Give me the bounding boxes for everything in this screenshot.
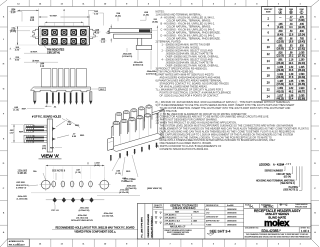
- svg-text:(36.20): (36.20): [298, 70, 306, 72]
- svg-text:(29.40): (29.40): [277, 70, 285, 72]
- svg-text:42.0: 42.0: [289, 84, 294, 86]
- svg-text:1998/09/08: 1998/09/08: [227, 217, 236, 219]
- svg-text:Ⓐ: Ⓐ: [279, 9, 283, 14]
- svg-text:APPROVED BY: APPROVED BY: [206, 219, 220, 222]
- svg-text:A - 4238# - * * *: A - 4238# - * * *: [273, 162, 291, 166]
- svg-text:INCORPORATED AND SHOULD NOT BE: INCORPORATED AND SHOULD NOT BE USED WITH…: [245, 236, 311, 239]
- svg-text:(4.20±0.10): (4.20±0.10): [79, 210, 90, 212]
- svg-text:1.65: 1.65: [106, 33, 110, 35]
- svg-text:(SEE NOTE 2): (SEE NOTE 2): [283, 190, 298, 192]
- left/right zone letter strips: [0, 26, 8, 28]
- svg-text:CKT. #1: CKT. #1: [51, 210, 59, 212]
- svg-text:3.18±.08: 3.18±.08: [18, 173, 27, 175]
- short dim line top-left: [18, 9, 39, 11]
- svg-text:(0.38±0.13): (0.38±0.13): [133, 64, 144, 66]
- view A terminal tips through board: [52, 128, 55, 141]
- svg-text:(4.55): (4.55): [10, 31, 16, 33]
- svg-text:J: J: [3, 39, 4, 41]
- scale/metric/projection row: [258, 204, 260, 209]
- rotated legend strips: [144, 204, 146, 240]
- svg-text:# OF P.C. BOARD HOLES: # OF P.C. BOARD HOLES: [32, 116, 62, 119]
- side view solder pins: [46, 92, 48, 101]
- svg-text:VIEW ’A’: VIEW ’A’: [41, 154, 59, 159]
- svg-text:1 OF 4: 1 OF 4: [301, 229, 309, 233]
- svg-text:CIRCUIT #1: CIRCUIT #1: [47, 51, 61, 54]
- view A left dim arrow: [13, 125, 15, 143]
- svg-text:(SEE VIEW ’A’): (SEE VIEW ’A’): [147, 187, 162, 190]
- side view base bar: [31, 87, 91, 92]
- svg-text:(27.81): (27.81): [298, 56, 306, 58]
- svg-text:molex: molex: [264, 217, 290, 228]
- svg-text:(21.00): (21.00): [277, 56, 285, 58]
- svg-text:1.12: 1.12: [40, 66, 45, 68]
- svg-text:ANGULAR ± 3°: ANGULAR ± 3°: [170, 225, 186, 228]
- svg-text:RECOMMENDED HOLE LAYOUT FOR .0: RECOMMENDED HOLE LAYOUT FOR .093/2.36 MA…: [55, 227, 134, 230]
- svg-text:(52.96): (52.96): [298, 98, 306, 100]
- corner diagonal top-right: [311, 0, 319, 7]
- svg-text:4.20: 4.20: [95, 33, 100, 35]
- svg-text:OF .020/0.51 ALLOWS FOR 4 POIN: OF .020/0.51 ALLOWS FOR 4 POINTS OF CONT…: [160, 94, 220, 97]
- pcb layout left mounting hole: [41, 180, 50, 189]
- svg-text:▽: ▽: [160, 212, 162, 215]
- svg-text:Ⓒ: Ⓒ: [300, 9, 304, 14]
- svg-text:33.6: 33.6: [289, 70, 294, 72]
- svg-text:P.C. LINE TYPE INFO: P.C. LINE TYPE INFO: [141, 217, 143, 238]
- general tolerances table: [204, 204, 206, 240]
- svg-text:(48.77): (48.77): [298, 91, 306, 93]
- svg-text:REF.: REF.: [75, 125, 80, 127]
- svg-text:2.13: 2.13: [101, 42, 106, 44]
- view A terminal rows: [24, 125, 53, 133]
- front view right mounting ear: [90, 29, 96, 38]
- svg-text:(1.19): (1.19): [75, 172, 81, 174]
- side view left retention leg: [34, 92, 36, 101]
- svg-text:(0.73±0.25): (0.73±0.25): [126, 188, 137, 190]
- svg-text:(0.05): (0.05): [94, 165, 100, 167]
- svg-text:REF.: REF.: [132, 179, 137, 181]
- svg-text:SYMBOLS: SYMBOLS: [153, 207, 163, 209]
- isometric left flange: [108, 137, 114, 150]
- isometric body vertical edge lines: [120, 126, 122, 147]
- legend connector lines: [284, 166, 302, 190]
- small dim marker under first pin: [45, 105, 52, 107]
- svg-text:▽: ▽: [160, 222, 162, 225]
- svg-text:CHECKED BY: CHECKED BY: [206, 217, 219, 219]
- svg-text:GENERAL TOLERANCES: GENERAL TOLERANCES: [170, 204, 198, 207]
- svg-text:B REF.: B REF.: [31, 51, 38, 53]
- svg-text:(1.02±0.08): (1.02±0.08): [17, 199, 28, 201]
- svg-text:SDA-42385-*: SDA-42385-*: [261, 229, 281, 233]
- svg-text:.062 REF.: .062 REF.: [16, 182, 26, 184]
- top zone tick strip: [28, 0, 30, 7]
- svg-text:(1.18): (1.18): [13, 109, 19, 111]
- section view right vertical extension line: [156, 26, 158, 71]
- svg-text:REF.: REF.: [126, 171, 131, 173]
- section view terminal block (dark): [139, 29, 150, 32]
- svg-text:REF.: REF.: [19, 132, 24, 134]
- pcb layout horizontal dim line lower: [46, 199, 105, 201]
- section view lower bar: [114, 34, 152, 38]
- isometric view body: [111, 109, 164, 150]
- isometric pins: [119, 153, 120, 156]
- svg-text:2.13: 2.13: [11, 12, 16, 14]
- svg-text:TO AID IN PCB INSERTION. INSER: TO AID IN PCB INSERTION. INSERT THE 4OUT…: [160, 107, 291, 110]
- svg-text:(23.62): (23.62): [298, 49, 306, 51]
- leader: pin indicates circuit #1: [43, 44, 47, 49]
- svg-text:SEC: SEC: [100, 89, 105, 91]
- svg-text:(12.60): (12.60): [277, 41, 285, 43]
- title block outer: [137, 204, 311, 240]
- svg-text:(6.45): (6.45): [115, 15, 121, 17]
- svg-text:REL E-2003-0417: REL E-2003-0417: [9, 244, 26, 246]
- svg-text:DOCUMENT NO.: DOCUMENT NO.: [245, 228, 259, 230]
- svg-text:(16.80): (16.80): [277, 49, 285, 51]
- svg-text:(02-24): (02-24): [284, 177, 291, 179]
- svg-text:(8.40): (8.40): [277, 34, 283, 36]
- svg-text:NON-ACCUMULATIVE: NON-ACCUMULATIVE: [71, 219, 93, 222]
- svg-text:(1.10): (1.10): [115, 173, 121, 175]
- document number row: [244, 226, 311, 228]
- revision box bottom-left: [8, 239, 30, 247]
- svg-text:(11.05): (11.05): [298, 27, 305, 29]
- isometric sockets back row: [116, 112, 122, 127]
- center mark arrow above housing: [63, 9, 65, 11]
- svg-text:BusMM: BusMM: [227, 205, 234, 207]
- view A leader lines: [56, 121, 69, 138]
- svg-text:& VIEW ’A’: & VIEW ’A’: [16, 187, 27, 190]
- corner diagonal bottom-left: [0, 239, 8, 247]
- svg-text:DESIGN ETLE: DESIGN ETLE: [206, 205, 219, 207]
- svg-text:REF.: REF.: [80, 135, 85, 137]
- extension lines from pin columns: [44, 23, 46, 26]
- front view terminal pins 5x2 grid: [42, 29, 49, 36]
- svg-text:A.PANULLE.P.D-: A.PANULLE.P.D-: [9, 240, 24, 243]
- section view upper bar: [109, 28, 152, 32]
- pcb layout pin holes row 2 (diamonds): [53, 197, 57, 202]
- svg-text:DIMENSION STANDARD: DIMENSION STANDARD: [147, 213, 150, 237]
- svg-text:(15.24): (15.24): [298, 34, 306, 36]
- pcb layout right mounting hole: [100, 180, 109, 189]
- svg-text:(1.43): (1.43): [143, 14, 149, 16]
- svg-text:37.8: 37.8: [289, 77, 294, 79]
- svg-text:1998/09/08: 1998/09/08: [227, 209, 236, 211]
- svg-text:(37.80): (37.80): [277, 84, 285, 86]
- svg-text:25.2: 25.2: [289, 56, 294, 58]
- svg-text:(33.60): (33.60): [277, 77, 285, 79]
- iso flange leg pin: [110, 155, 111, 159]
- svg-text:PLATING: PLATING: [289, 186, 299, 189]
- front view centerline: [30, 36, 98, 38]
- svg-text:REF.: REF.: [22, 109, 27, 111]
- svg-text:1998/09/08: 1998/09/08: [227, 225, 236, 227]
- side view right dim box: [90, 88, 99, 90]
- signoff column: [243, 204, 245, 240]
- svg-text:⊕—◁: ⊕—◁: [280, 203, 288, 207]
- svg-text:SERIES NUMBER: SERIES NUMBER: [265, 171, 284, 173]
- svg-text:(±0.10) SQL: (±0.10) SQL: [102, 216, 114, 218]
- svg-text:MICRO-FIT SYMBOLS: MICRO-FIT SYMBOLS: [151, 216, 153, 238]
- circuit size dim table: [262, 7, 307, 101]
- svg-text:29.4: 29.4: [289, 63, 294, 65]
- svg-text:1998/09/08: 1998/09/08: [227, 213, 236, 215]
- front view housing outline: [39, 26, 90, 45]
- svg-text:(32.00): (32.00): [298, 63, 306, 65]
- svg-text:(4.20): (4.20): [277, 27, 283, 29]
- view A pcb bar: [47, 119, 52, 152]
- section view bottom tab: [136, 45, 152, 49]
- vertical dim housing height: [17, 26, 19, 45]
- dim line W REF above front view: [45, 21, 83, 23]
- section view left dim: [110, 25, 112, 29]
- svg-text:(4.32±.08): (4.32±.08): [119, 192, 129, 194]
- svg-text:▽: ▽: [160, 217, 162, 220]
- svg-text:(46.20): (46.20): [277, 98, 285, 100]
- svg-text:CIRCUIT SIZE: CIRCUIT SIZE: [276, 174, 291, 176]
- svg-text:46.2: 46.2: [289, 91, 294, 93]
- corner diagonal bottom-right: [311, 239, 319, 247]
- svg-text:1998/09/08: 1998/09/08: [227, 220, 236, 222]
- section view vertical stem: [138, 38, 142, 45]
- svg-text:SEE NOTE 6: SEE NOTE 6: [16, 185, 29, 187]
- svg-text:W REF.: W REF.: [50, 15, 58, 17]
- svg-text:(0.8): (0.8): [42, 148, 46, 150]
- svg-text:DIMENSIONS: DIMENSIONS: [172, 234, 185, 236]
- svg-text:50.4: 50.4: [289, 98, 294, 100]
- svg-text:(25.20): (25.20): [277, 63, 285, 65]
- svg-text:J: J: [315, 39, 316, 41]
- disclaimer row: [244, 232, 311, 234]
- svg-text:(SEE NOTE 1): (SEE NOTE 1): [280, 183, 295, 185]
- svg-text:2.24: 2.24: [30, 20, 35, 22]
- svg-text:PROJECTION: PROJECTION: [295, 206, 308, 208]
- corner diagonal top-left (cut corner): [0, 0, 7, 6]
- quality symbols column: [162, 204, 164, 240]
- front view left mounting ear: [33, 29, 39, 38]
- dim line above housing full width: [39, 16, 48, 18]
- svg-text:Ⓑ: Ⓑ: [289, 9, 293, 14]
- svg-text:DIA: DIA: [33, 170, 37, 173]
- svg-text:HOUSING AND TERMINAL MATERIAL: HOUSING AND TERMINAL MATERIAL: [256, 179, 296, 182]
- svg-text:(1.10): (1.10): [121, 181, 127, 183]
- svg-text:(6.86): (6.86): [299, 20, 305, 22]
- svg-text:(44.58): (44.58): [298, 84, 306, 86]
- isometric sockets front row: [113, 121, 119, 136]
- svg-text:(1.37±0.13): (1.37±0.13): [122, 56, 133, 58]
- svg-text:SIZE: SIZE: [266, 11, 271, 13]
- svg-text:H.KIM: H.KIM: [206, 225, 212, 227]
- svg-text:.04: .04: [54, 106, 57, 108]
- svg-text:21.0: 21.0: [289, 49, 294, 51]
- side view right retention leg: [90, 92, 92, 101]
- svg-text:VIEWED FROM COMPONENT SIDE △: VIEWED FROM COMPONENT SIDE △: [74, 231, 115, 234]
- pcb layout pin holes row 1 (ovals): [52, 181, 56, 187]
- svg-text:(42.00): (42.00): [277, 91, 285, 93]
- svg-text:COSMETIC SPECIFICATION PS-4549: COSMETIC SPECIFICATION PS-45499-002.: [160, 148, 209, 151]
- svg-text:(40.39): (40.39): [298, 77, 306, 79]
- svg-text:16.8: 16.8: [289, 41, 294, 43]
- svg-text:(3.84): (3.84): [152, 21, 158, 23]
- svg-text:REF.: REF.: [50, 148, 55, 150]
- svg-text:LEGEND:: LEGEND:: [259, 162, 271, 166]
- svg-text:12.6: 12.6: [289, 34, 294, 36]
- svg-text:SEE NOTE 6: SEE NOTE 6: [52, 171, 66, 173]
- isometric bottom rail: [110, 133, 164, 151]
- pcb layout: top dim line: [46, 165, 105, 167]
- side view shroud walls: [41, 69, 51, 88]
- svg-text:SEE SHT 3-4: SEE SHT 3-4: [210, 229, 231, 233]
- svg-text:(19.43): (19.43): [298, 41, 306, 43]
- isometric leader lines to labels: [112, 155, 138, 177]
